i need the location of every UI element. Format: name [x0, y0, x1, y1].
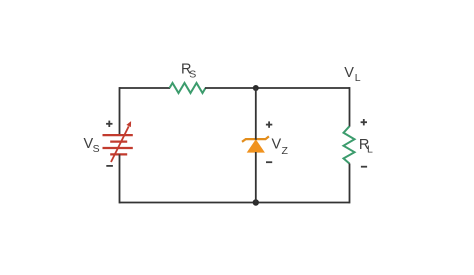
wire top-right segment [205, 87, 350, 89]
plus sign VS [106, 121, 112, 127]
wire middle lower [255, 152, 257, 203]
wire right upper [349, 87, 351, 127]
label RL [359, 137, 373, 156]
svg-text:S: S [189, 68, 196, 80]
label VZ [272, 137, 289, 157]
wire bottom [120, 202, 350, 204]
label VS [84, 136, 100, 155]
wire middle upper [255, 88, 257, 140]
plus sign RL [361, 119, 367, 125]
voltage source VS (variable battery) [103, 121, 133, 162]
svg-text:Z: Z [282, 145, 289, 157]
node B (bottom junction dot) [253, 199, 259, 205]
minus sign VZ [266, 161, 272, 163]
zener diode VZ anode triangle [247, 139, 265, 152]
minus sign VS [106, 165, 113, 167]
wire right lower [349, 164, 351, 204]
svg-text:S: S [93, 143, 100, 155]
svg-text:L: L [367, 144, 373, 156]
zener diode VZ cathode bar [242, 136, 269, 141]
minus sign RL [361, 166, 367, 168]
node A (top junction dot) [253, 85, 259, 91]
resistor RS [170, 83, 206, 93]
svg-text:V: V [272, 137, 282, 153]
label VL [344, 65, 361, 84]
plus sign VZ [266, 121, 272, 127]
svg-text:L: L [355, 72, 361, 84]
resistor RL [344, 126, 355, 163]
wire top-left segment [120, 87, 171, 89]
label RS [181, 62, 196, 81]
wire left upper [119, 87, 121, 135]
wire left lower [119, 154, 121, 203]
svg-text:V: V [344, 65, 354, 81]
